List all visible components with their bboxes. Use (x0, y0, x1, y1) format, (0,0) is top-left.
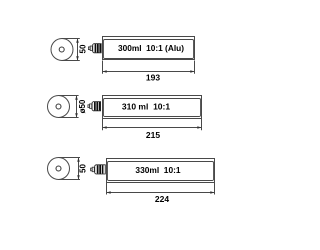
extension line top row3 (59, 157, 81, 159)
nozzle tip row1 (88, 47, 90, 50)
extension line right row1 (194, 61, 196, 74)
extension line left row2 (102, 119, 104, 131)
svg-text:224: 224 (155, 194, 169, 204)
cartridge body row3 (107, 159, 215, 183)
nozzle cap row2 (92, 102, 101, 111)
extension line bottom row1 (62, 60, 80, 62)
extension line bottom row2 (59, 117, 79, 119)
cartridge body row2 (103, 96, 202, 119)
svg-text:215: 215 (146, 130, 160, 140)
svg-text:50: 50 (78, 44, 87, 53)
svg-text:300ml 10:1 (Alu): 300ml 10:1 (Alu) (118, 43, 184, 53)
length dimension line row1 (103, 71, 195, 73)
diameter dimension line row3 (78, 158, 80, 180)
diameter dimension line row2 (76, 96, 78, 118)
nozzle cap row1 (93, 44, 102, 53)
end-view circle row2 (48, 96, 70, 118)
length dimension line row2 (103, 127, 202, 129)
extension line right row3 (214, 183, 216, 195)
label sleeve row3 (108, 162, 214, 181)
nozzle tip row2 (88, 105, 90, 108)
outlet hole row2 (56, 104, 61, 109)
label sleeve row2 (104, 99, 201, 117)
label sleeve row1 (104, 40, 194, 59)
svg-text:310 ml 10:1: 310 ml 10:1 (122, 101, 170, 111)
length dimension line row3 (107, 192, 215, 194)
extension line left row3 (106, 183, 108, 195)
outlet hole row1 (59, 47, 64, 52)
svg-text:330ml 10:1: 330ml 10:1 (135, 165, 181, 175)
outlet hole row3 (56, 166, 61, 171)
extension line top row1 (62, 38, 80, 40)
svg-text:193: 193 (146, 72, 160, 82)
cartridge body row1 (103, 37, 195, 60)
extension line bottom row3 (59, 179, 81, 181)
extension line right row2 (201, 119, 203, 131)
svg-text:ø50: ø50 (78, 99, 87, 113)
svg-text:50: 50 (79, 164, 88, 173)
nozzle cap row3 (95, 165, 106, 174)
nozzle tip row3 (91, 168, 93, 171)
end-view circle row3 (48, 158, 70, 180)
extension line left row1 (102, 61, 104, 74)
diameter dimension line row1 (77, 39, 79, 61)
end-view circle row1 (51, 39, 73, 61)
extension line top row2 (59, 95, 79, 97)
